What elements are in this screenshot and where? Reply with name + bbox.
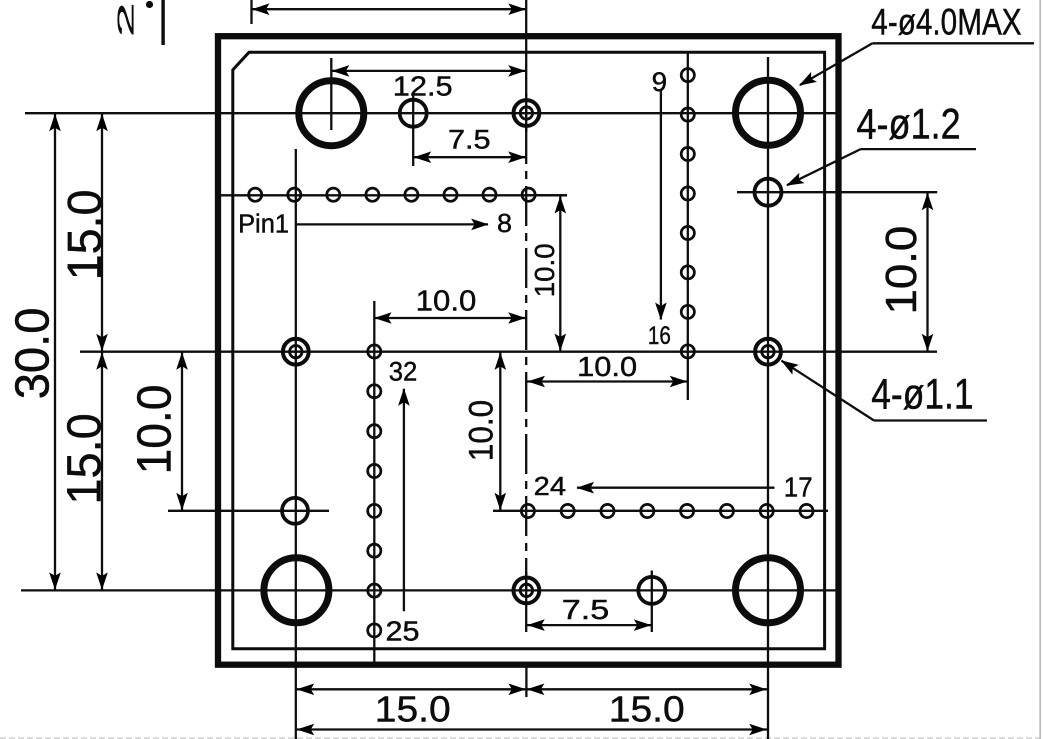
frame edge right faint [1039,0,1041,739]
center axis ext bottom [525,590,527,632]
svg-text:10.0: 10.0 [877,226,926,315]
svg-text:10.0: 10.0 [529,243,560,297]
pin column 9-16 circles [681,69,694,359]
phi1.2 hole right [755,179,782,206]
dimension 12.5 [331,65,526,101]
svg-text:15.0: 15.0 [59,189,112,280]
center axis solid through bottom via [525,572,527,590]
9 label and arrow to 16 [648,67,671,350]
via bottom center [514,578,540,604]
svg-text:10.0: 10.0 [462,400,500,461]
top phi1.2 centerline vertical [412,95,414,166]
label 4-phi1.1 with leader [778,355,987,420]
dimension 30.0 left [6,113,60,590]
svg-text:30.0: 30.0 [6,308,59,400]
left hole centerline vertical [295,149,297,739]
dimension 10.0 left lower [129,352,330,511]
svg-text:10.0: 10.0 [129,385,182,475]
pin column 9-16 line [687,53,689,400]
svg-text:7.5: 7.5 [448,124,491,154]
24 label and arrow from 17 [534,471,813,502]
board outline outer [218,36,839,665]
dimension 10.0 center vertical lower [462,352,506,511]
svg-text:9: 9 [652,67,668,97]
center axis vertical dash-dot [525,62,527,590]
dimension 10.0 center vertical upper [527,195,567,351]
label 4-phi1.2 with leader [784,100,976,190]
pin column 25-32 circles [368,345,381,637]
pin row 17-24 circles [521,504,813,517]
svg-text:8: 8 [497,208,512,238]
via right middle [755,339,781,365]
svg-text:Pin1: Pin1 [238,209,289,239]
pin row 1-8 line [216,194,568,196]
svg-text:10.0: 10.0 [577,351,637,382]
dimension total bottom cut [296,724,767,736]
pin row 1-8 circles [249,188,536,201]
svg-text:12.5: 12.5 [393,70,453,101]
via top center [514,100,540,126]
frame edge bottom faint [0,737,1043,739]
svg-text:10.0: 10.0 [416,286,477,318]
mounting hole TL [299,81,364,146]
svg-text:15.0: 15.0 [59,413,112,504]
phi1.2 hole top [400,100,427,127]
svg-text:4-ø1.2: 4-ø1.2 [857,100,961,148]
32 label and arrow from 25 [386,356,420,646]
via left middle [283,339,309,365]
phi1.2 hole bottom [638,577,665,604]
pin row 17-24 line [493,510,828,512]
dimension 7.5 top [413,124,526,163]
svg-text:7.5: 7.5 [562,594,610,625]
svg-text:32: 32 [389,356,418,386]
mounting hole TR [736,80,801,145]
svg-text:17: 17 [784,471,813,502]
dimension 10.0 mid-right horizontal [527,351,688,387]
TL circle centerline vertical [330,58,332,130]
middle centerline horizontal [80,351,937,353]
top cut dimension [252,0,526,24]
svg-text:24: 24 [534,471,566,501]
top centerline horizontal [25,112,841,114]
dimension 7.5 bottom [527,571,652,633]
svg-text:2: 2 [113,2,139,38]
Pin1 label and arrow to 8 [238,208,512,238]
dimension 15.0/15.0 bottom [296,684,767,730]
rotated 2. text top-left [113,0,165,45]
right hole centerline vertical [767,57,769,739]
svg-text:25: 25 [386,615,420,646]
svg-text:16: 16 [648,322,671,350]
svg-text:4-ø4.0MAX: 4-ø4.0MAX [871,2,1021,43]
dimension 10.0 right vertical [737,192,937,352]
phi1.2 hole left [282,498,308,524]
dimension 10.0 mid-left horizontal [374,286,527,324]
svg-text:4-ø1.1: 4-ø1.1 [871,370,973,418]
center axis solid through top via [525,94,527,132]
svg-text:15.0: 15.0 [375,689,451,730]
mounting hole BR [736,558,801,623]
label 4-phi4.0MAX with leader [796,2,1034,91]
dimension 15.0/15.0 left [59,113,113,590]
mounting hole BL [264,558,329,623]
center ext below board [525,664,527,697]
pin column 25-32 line [373,301,375,662]
bottom centerline horizontal [21,589,838,591]
svg-text:15.0: 15.0 [609,689,685,730]
board outline inner with chamfer [233,52,825,649]
center axis vertical (solid top) [525,0,527,62]
